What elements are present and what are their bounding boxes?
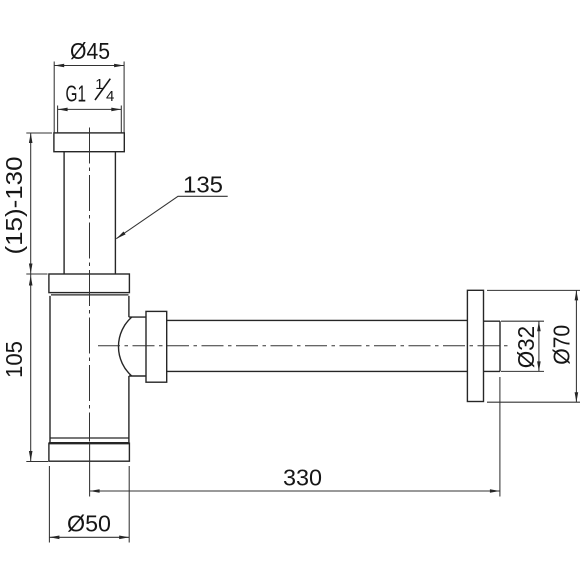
trap cap ring [49, 274, 129, 293]
outlet pipe top wall [167, 319, 468, 321]
leader 135 polyline [116, 196, 227, 238]
top inlet flange [54, 133, 124, 152]
arrow Ø50 right [119, 536, 129, 540]
dim Ø45 line [54, 65, 124, 67]
horizontal centerline [98, 345, 512, 347]
arrow 330 left [90, 489, 100, 493]
trap body right wall upper [128, 296, 130, 317]
dim 105 extension bottom [26, 461, 48, 463]
pipe stub bottom behind rosette [484, 370, 501, 372]
dim Ø50 extension right [128, 466, 130, 543]
arrow 330 right [490, 489, 500, 493]
svg-text:Ø32: Ø32 [513, 326, 539, 369]
fraction slash of G1 1/4 [95, 79, 110, 100]
arrow 105 top [29, 276, 33, 286]
svg-text:105: 105 [1, 341, 27, 378]
arrow G1 left [58, 108, 68, 112]
dim G1 1/4 extension right [120, 106, 122, 133]
dim 330 extension left [89, 444, 91, 497]
bottom cup [49, 443, 129, 461]
cap lip line [51, 294, 129, 296]
arrow leader 135 [116, 232, 125, 239]
dim Ø70 extension top [487, 289, 580, 291]
wall rosette flange [467, 290, 483, 401]
dim Ø50 extension left [48, 466, 50, 543]
svg-text:330: 330 [283, 464, 322, 490]
svg-text:(15)-130: (15)-130 [1, 157, 27, 255]
dim Ø32 extension top [501, 320, 544, 322]
arrow 130 top [29, 133, 33, 143]
body inner joint line [50, 437, 129, 439]
dim 130 extension top [26, 132, 52, 134]
svg-text:Ø45: Ø45 [70, 38, 110, 64]
trap body left wall [49, 296, 51, 443]
arrow Ø32 bottom [537, 361, 541, 371]
arrow 130 bottom [29, 264, 33, 274]
dim Ø50 line [49, 536, 129, 538]
dim G1 1/4 line [58, 108, 122, 110]
svg-text:Ø50: Ø50 [67, 511, 111, 537]
dim Ø70 line [575, 290, 577, 402]
arrow Ø70 top [575, 290, 579, 300]
dim G1 1/4 extension left [57, 106, 59, 133]
dim Ø70 extension bottom [487, 401, 580, 403]
svg-text:135: 135 [183, 172, 223, 198]
inlet tube wall left [63, 152, 65, 274]
pipe stub top behind rosette [484, 320, 501, 322]
dim 330 extension right [499, 377, 501, 497]
dim shared extension tick [26, 273, 47, 275]
dim 330 line [90, 490, 500, 492]
arrow Ø50 left [49, 536, 59, 540]
pipe stub end [499, 321, 501, 371]
bottom cup joint thick line [49, 442, 129, 444]
tee dome arc [118, 317, 131, 376]
vertical centerline [89, 128, 91, 442]
outlet pipe bottom wall [167, 370, 468, 372]
svg-text:Ø70: Ø70 [548, 325, 574, 365]
dim Ø45 extension left [53, 62, 55, 133]
compression nut [146, 311, 167, 382]
dim Ø45 extension right [123, 62, 125, 133]
trap body right wall lower [128, 376, 130, 443]
dim Ø32 line [538, 321, 540, 371]
arrow Ø32 top [537, 321, 541, 331]
dim 130-105 vertical line [30, 133, 32, 461]
dim Ø32 extension bottom [501, 370, 544, 372]
arrow 105 bottom [29, 451, 33, 461]
arrow G1 right [111, 108, 121, 112]
tee outlet bottom edge [129, 375, 146, 377]
svg-text:G1: G1 [66, 80, 87, 106]
arrow Ø45 right [114, 64, 124, 68]
inlet tube wall right [114, 152, 116, 274]
tee outlet top edge [129, 316, 146, 318]
svg-text:4: 4 [106, 88, 114, 105]
arrow Ø45 left [54, 64, 64, 68]
arrow Ø70 bottom [575, 392, 579, 402]
